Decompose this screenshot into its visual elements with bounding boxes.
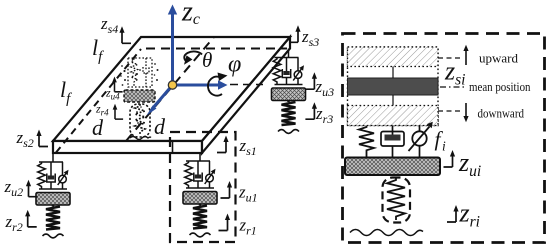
upward arrow — [465, 50, 467, 65]
roll rotation arrow (phi) — [208, 77, 222, 96]
vehicle body plate: right face — [202, 37, 290, 153]
mean position band (sprung mass m_si) — [348, 78, 439, 95]
hidden bottom-back edge (dashed) — [146, 48, 287, 50]
actuator f1 variable arrow — [205, 172, 214, 184]
inset road profile wave — [350, 230, 423, 236]
measurement arrow z_r4 — [113, 104, 123, 119]
z_c vertical axis (blue) — [171, 13, 174, 85]
svg-text:upward: upward — [479, 51, 518, 66]
wire: actuator f3 to lower bar — [297, 78, 299, 84]
road profile z_r4 wave — [130, 137, 151, 140]
svg-text:θ: θ — [202, 48, 212, 72]
actuator f3 rod — [297, 58, 299, 71]
svg-text:d: d — [154, 114, 166, 139]
unsprung mass m_u2 — [36, 193, 70, 206]
hidden bottom-left edge (dashed) — [56, 49, 141, 153]
unsprung mass m_u1 — [183, 192, 217, 205]
hidden suspension spring k4 (dotted) — [131, 58, 138, 87]
actuator f2 circle — [59, 175, 67, 183]
svg-text:φ: φ — [228, 52, 241, 78]
damper c3 cylinder — [282, 69, 290, 78]
tire spring k_t3 — [282, 101, 296, 126]
suspension spring k1 — [185, 161, 193, 188]
upward stroke band (hatched) — [348, 47, 439, 67]
damper c1 piston — [195, 175, 201, 179]
node: center of gravity dot — [168, 81, 176, 89]
strut lower bar 1 — [186, 187, 214, 189]
tire spring k_t2 — [46, 205, 60, 230]
road profile z_r1 wave — [190, 233, 211, 237]
inset suspension spring k_i — [359, 126, 374, 158]
wire: damper c3 to lower bar — [286, 78, 288, 85]
road profile z_r3 wave — [278, 130, 299, 134]
actuator f3 variable arrow — [293, 69, 302, 81]
svg-text:downward: downward — [478, 106, 525, 121]
tick between mean band and downward band — [392, 95, 394, 106]
strut top bar 2 — [39, 161, 63, 163]
inset unsprung mass m_ui — [345, 158, 440, 176]
downward arrow — [465, 103, 467, 117]
strut top bar 3 — [275, 57, 299, 59]
inset dashed border box — [343, 34, 545, 243]
damper c3 rod — [286, 58, 288, 72]
measurement arrow z_ri — [447, 205, 459, 222]
lateral roll-axis extension dashes — [230, 84, 263, 86]
actuator f1 rod — [209, 161, 211, 174]
measurement arrow z_u2 — [26, 180, 38, 197]
hidden suspension 4 strut box (dotted) — [128, 58, 152, 87]
longitudinal axis arrow (blue, toward viewer) — [152, 85, 173, 109]
measurement arrow z_s1 — [217, 136, 229, 153]
vehicle body plate: front face — [53, 141, 202, 153]
inset damper c_i — [392, 126, 394, 158]
suspension corner 2: attachment rod — [36, 153, 70, 238]
front-face center tick — [172, 141, 174, 153]
downward stroke band (hatched) — [348, 106, 439, 126]
svg-text:mean position: mean position — [469, 79, 531, 94]
sketchy speckles around hidden strut — [120, 63, 158, 129]
measurement arrow z_r2 — [25, 210, 37, 227]
hidden tire spring k_t4 (dotted) — [135, 104, 145, 135]
measurement arrow z_s2 — [36, 130, 48, 147]
measurement arrow z_u4 — [112, 77, 122, 92]
actuator f2 variable arrow — [58, 173, 66, 185]
damper c2 cylinder — [47, 174, 55, 183]
wire: body attachment to strut bar 3 — [288, 49, 290, 58]
suspension corner 3: attachment rod — [272, 49, 306, 134]
wire: damper c2 to lower bar — [50, 182, 52, 189]
pitch rotation arrow (theta) — [184, 51, 202, 62]
measurement arrow z_r3 — [305, 102, 317, 119]
road profile z_r2 wave — [43, 234, 64, 238]
actuator f2 rod — [62, 162, 64, 175]
wire: body attachment to strut bar 2 — [52, 153, 54, 162]
suspension spring k3 — [273, 58, 281, 85]
longitudinal centerline / pitch axis (dashed) — [126, 37, 214, 141]
damper c2 rod — [50, 162, 52, 176]
inset tire outline (dashed) — [383, 178, 411, 223]
upward leader line (dashed) — [438, 57, 462, 59]
hidden damper c4 (dotted) — [143, 58, 149, 87]
tire spring k_t1 — [193, 204, 207, 229]
measurement arrow z_u1 — [221, 181, 233, 198]
vehicle body plate: top face — [53, 37, 290, 141]
lateral axis arrow (blue, right) — [173, 84, 220, 87]
hidden unsprung mass m_u4 — [124, 90, 155, 102]
damper c3 piston — [283, 71, 289, 75]
inset tire spring k_ti — [387, 178, 405, 221]
wire: damper c1 to lower bar — [197, 181, 199, 188]
dashed highlight box around suspension corner 1 — [170, 132, 236, 242]
measurement arrow z_ui — [444, 150, 456, 167]
actuator f3 circle — [294, 71, 302, 79]
unsprung mass m_u3 — [272, 88, 306, 101]
damper c1 cylinder — [194, 173, 202, 182]
strut lower bar 2 — [39, 188, 67, 190]
wire: actuator f1 to lower bar — [209, 182, 211, 188]
inset actuator f_i — [419, 126, 421, 158]
measurement arrow z_u3 — [305, 72, 317, 89]
downward leader line (dashed) — [438, 110, 462, 112]
measurement arrow z_s3 — [289, 25, 301, 42]
strut lower bar 3 — [275, 84, 303, 86]
damper c2 piston — [48, 176, 54, 180]
suspension spring k2 — [38, 162, 46, 189]
wire: actuator f2 to lower bar — [62, 183, 64, 189]
suspension stroke range dotted rect — [348, 47, 439, 126]
suspension corner 1: attachment rod — [183, 152, 217, 237]
mean position leader line (dash-dot) — [440, 86, 467, 88]
tick between upward band and mean band — [392, 67, 394, 79]
damper c1 rod — [197, 161, 199, 175]
measurement arrow z_r1 — [219, 214, 231, 231]
wire: body attachment to strut bar 1 — [199, 152, 201, 161]
actuator f1 circle — [206, 174, 214, 182]
svg-text:d: d — [92, 115, 104, 140]
hidden tire 4 outline (dotted) — [130, 104, 150, 137]
measurement arrow z_s4 — [119, 26, 131, 43]
strut top bar 1 — [186, 160, 210, 162]
